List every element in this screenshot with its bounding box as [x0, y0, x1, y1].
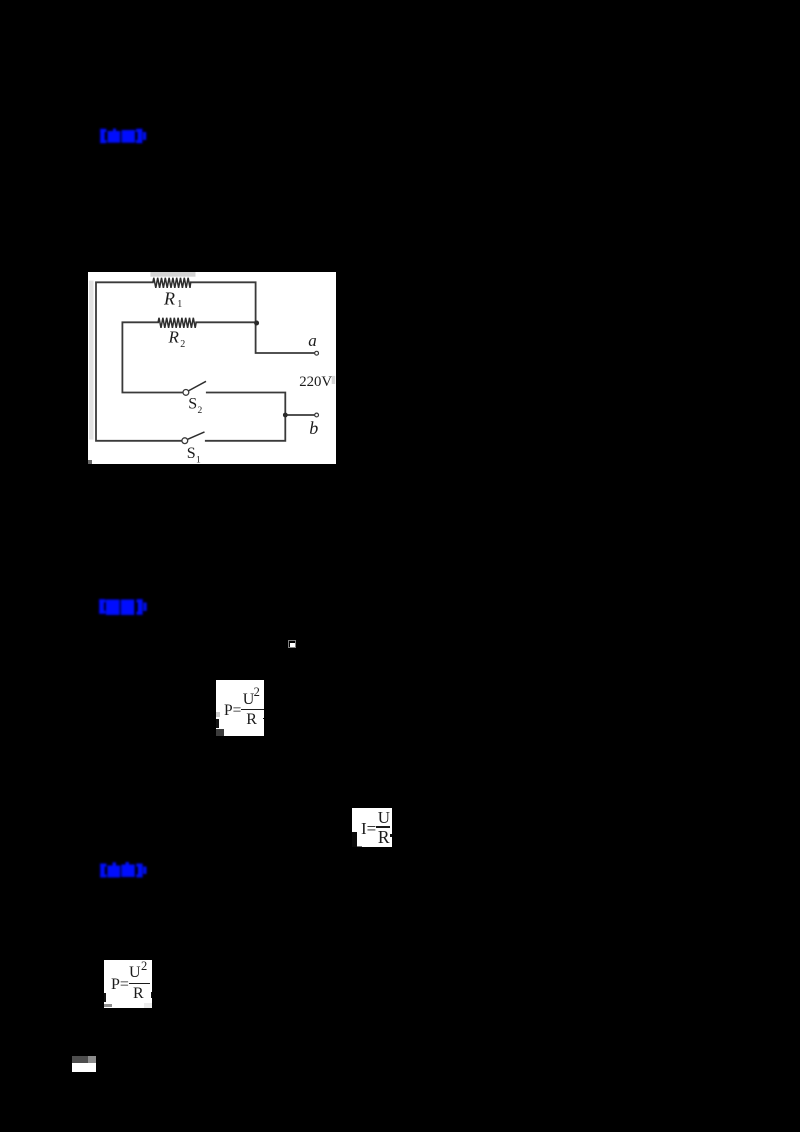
svg-text:1: 1 [177, 299, 182, 310]
svg-text:R: R [163, 288, 175, 308]
svg-text:a: a [308, 331, 317, 350]
svg-text:b: b [309, 418, 318, 438]
svg-text:2: 2 [198, 406, 203, 416]
svg-text:220V: 220V [299, 374, 332, 390]
svg-text:2: 2 [180, 339, 185, 350]
svg-text:1: 1 [196, 456, 201, 465]
svg-text:R: R [168, 328, 180, 347]
svg-text:S: S [187, 445, 196, 462]
svg-text:S: S [188, 395, 197, 412]
